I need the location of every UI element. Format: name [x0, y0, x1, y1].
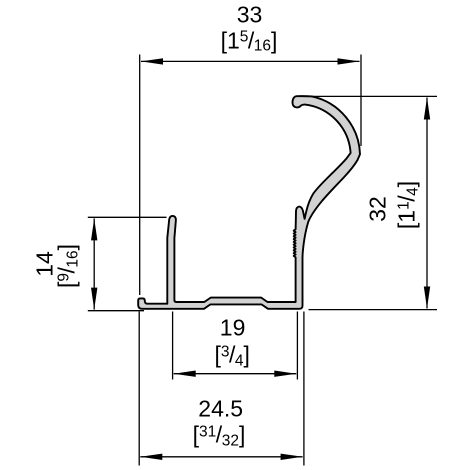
dimension 14: bottom arrow — [91, 288, 97, 310]
dimension 24.5: inch label [31/32] — [193, 424, 246, 447]
profile cross-section (aluminium extrusion) — [138, 96, 360, 309]
dimension 32: value label — [366, 196, 389, 222]
dimension 19: inch label [3/4] — [214, 344, 249, 367]
dimension 24.5: left arrow — [140, 454, 162, 460]
dimension 19: right extension line — [296, 312, 298, 380]
dimension 19: right arrow — [274, 371, 296, 377]
dimension 14: bottom extension line — [88, 310, 144, 312]
dimension 24.5: right extension line — [303, 312, 305, 466]
dimension 14: value label — [33, 251, 56, 277]
dimension 33: left extension line — [139, 55, 141, 296]
dimension 32: inch label [1 1/4] — [395, 180, 418, 228]
dimension 32: top arrow — [424, 98, 430, 120]
dimension 19: left arrow — [174, 371, 196, 377]
dimension 14: top arrow — [91, 218, 97, 240]
dimension 14: top extension line — [88, 216, 167, 218]
dimension 24.5: dimension line — [140, 456, 302, 458]
dimension 33: right arrow — [338, 58, 360, 64]
dimension 19: left extension line — [172, 312, 174, 380]
dimension 33: right extension line — [360, 55, 362, 147]
dimension 19: dimension line — [174, 373, 297, 375]
dimension 33: inch label [1 5/16] — [221, 29, 278, 52]
dimension 24.5: value label — [198, 398, 243, 421]
dimension 32: top extension line — [295, 95, 437, 97]
dimension 32: dimension line — [426, 98, 428, 309]
dimension 24.5: left extension line — [138, 312, 140, 466]
dimension 32: bottom arrow — [424, 287, 430, 309]
dimension 33: value label — [237, 4, 263, 27]
dimension 19: value label — [220, 316, 246, 339]
dimension 33: dimension line — [141, 60, 360, 62]
dimension 14: dimension line — [93, 218, 95, 309]
dimension 14: inch label [9/16] — [55, 243, 78, 287]
dimension 33: left arrow — [141, 58, 163, 64]
dimension 24.5: right arrow — [281, 454, 303, 460]
dimension 32: bottom extension line — [309, 309, 438, 311]
